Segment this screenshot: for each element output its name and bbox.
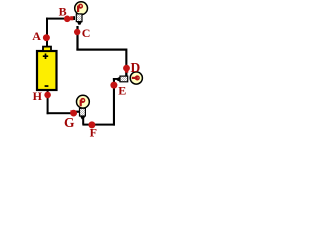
svg-text:D: D xyxy=(131,60,141,75)
wire right vertical through D to lamp L2 xyxy=(125,49,127,77)
lamp L3 glass xyxy=(77,95,90,108)
battery plus sign xyxy=(43,54,48,60)
wire right lower vertical through E to bottom corner xyxy=(113,78,115,126)
lamp L3 base xyxy=(80,108,86,116)
node B dot xyxy=(64,15,71,22)
node D dot xyxy=(123,65,130,72)
node E dot xyxy=(110,82,117,89)
lamp L3 filament bar xyxy=(80,100,82,106)
svg-text:A: A xyxy=(32,29,41,43)
wire lamp L1 stem down through C to corner xyxy=(76,26,78,51)
svg-text:E: E xyxy=(118,83,126,97)
lamp L2 top lead stub xyxy=(125,71,127,77)
wire lamp L2 left lead horizontal xyxy=(113,78,121,80)
battery BT1 top terminal tab xyxy=(43,47,51,51)
battery BT1 body xyxy=(37,51,57,90)
lamp L1 filament ring xyxy=(78,4,83,9)
node A dot xyxy=(43,34,50,41)
lamp L3 stem xyxy=(80,116,85,119)
lamp L3 side terminal xyxy=(70,110,73,114)
lamp L3 side lead stub xyxy=(74,111,80,113)
svg-text:F: F xyxy=(90,126,97,140)
lamp L2 filament bar xyxy=(132,77,138,79)
wire bottom left horizontal G to corner xyxy=(47,112,71,114)
svg-text:C: C xyxy=(82,26,91,40)
node G dot xyxy=(70,110,77,117)
wire left lower vertical battery bottom through H xyxy=(47,91,49,114)
node F dot xyxy=(88,121,95,128)
lamp L1 side lead stub xyxy=(73,16,75,20)
lamp L1 side terminal xyxy=(70,16,73,20)
lamp L3 stem wire to bottom xyxy=(82,119,84,125)
wire top horizontal A-corner to lamp L1 xyxy=(46,18,73,20)
lamp L2 top terminal xyxy=(125,70,128,73)
lamp L1 glass xyxy=(75,2,88,15)
lamp L2 base xyxy=(120,76,128,82)
wire bottom right horizontal through F xyxy=(82,124,115,126)
wire battery top to corner and A node (left vertical) xyxy=(46,18,48,47)
node H dot xyxy=(44,92,51,99)
battery minus sign xyxy=(45,85,49,87)
node C dot xyxy=(74,29,80,35)
lamp L2 stem xyxy=(117,77,120,82)
lamp L2 glass xyxy=(130,72,142,84)
svg-text:H: H xyxy=(33,89,43,103)
lamp L3 filament ring xyxy=(80,98,85,103)
wire mid horizontal C-corner to D-corner xyxy=(76,49,127,51)
svg-text:B: B xyxy=(59,5,67,19)
lamp L1 base xyxy=(76,14,82,22)
svg-text:G: G xyxy=(64,115,75,130)
lamp L1 stem xyxy=(77,22,82,25)
lamp L2 filament ring xyxy=(135,75,140,80)
lamp L1 filament bar xyxy=(77,6,79,12)
